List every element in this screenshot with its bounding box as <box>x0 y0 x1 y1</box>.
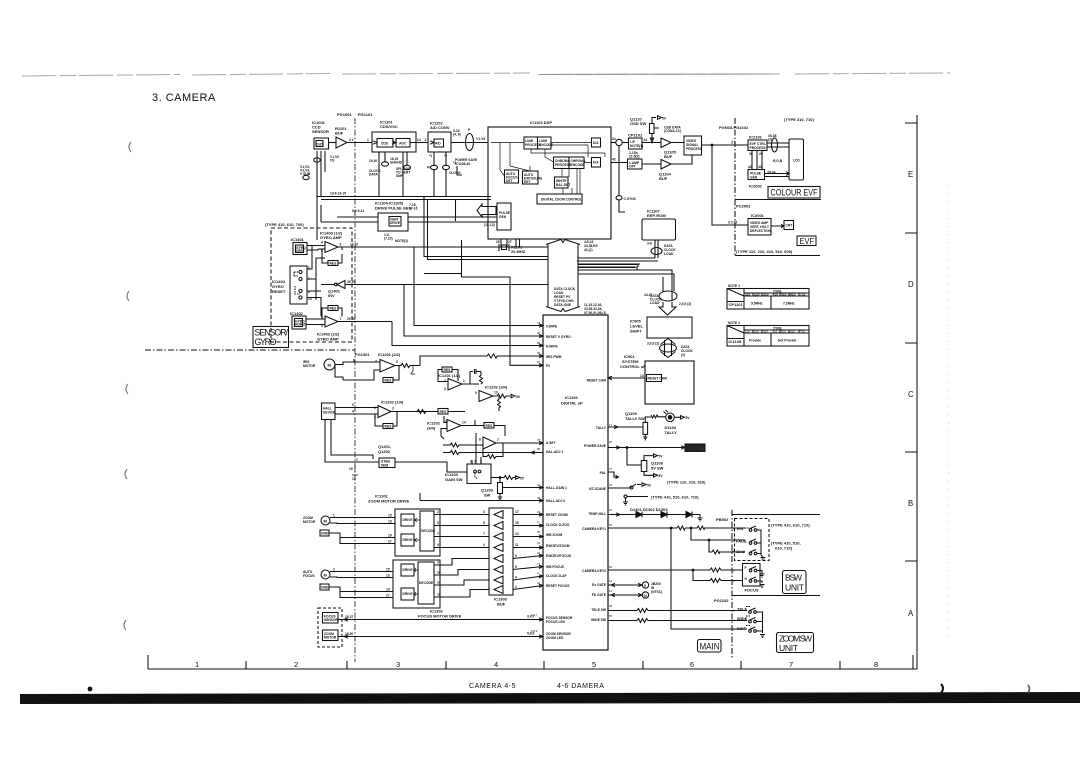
iris servo op-amp IC1201(2/2) <box>353 359 398 373</box>
svg-text:17-16: 17-16 <box>409 207 418 211</box>
svg-text:FOCUS: FOCUS <box>745 588 759 593</box>
svg-text:PROCESS: PROCESS <box>750 146 767 150</box>
IC1202(1/4) feedback RES <box>375 412 397 429</box>
svg-text:3-8: 3-8 <box>647 242 652 246</box>
svg-text:CP1101: CP1101 <box>729 302 744 307</box>
svg-text:NOTE(1): NOTE(1) <box>630 144 643 148</box>
svg-text:11-5(2): 11-5(2) <box>629 155 639 159</box>
svg-text:RESET V GYRO: RESET V GYRO <box>546 335 571 339</box>
svg-text:16: 16 <box>437 571 441 575</box>
svg-text:71: 71 <box>609 467 613 471</box>
svg-text:GAIN SW: GAIN SW <box>445 477 463 482</box>
buffer op-amp to A SET <box>479 437 543 449</box>
svg-text:9: 9 <box>352 403 354 407</box>
IC1301 zoom motor drive <box>368 494 440 557</box>
connector boundary PG1001/PG1101 dash-dot line <box>354 118 356 662</box>
IC1201(1/2) feedback RES <box>438 367 458 382</box>
LCD panel <box>789 139 804 180</box>
svg-text:Provide: Provide <box>749 339 761 343</box>
svg-text:4: 4 <box>437 543 439 547</box>
svg-text:(TYPE 410, 510, 610, 710): (TYPE 410, 510, 610, 710) <box>651 495 699 500</box>
svg-text:A: A <box>908 609 914 618</box>
svg-text:13: 13 <box>640 374 644 378</box>
svg-text:LCD: LCD <box>793 159 800 163</box>
buffer Q1105 <box>661 138 671 148</box>
svg-text:GYRO AMP: GYRO AMP <box>317 337 339 342</box>
svg-text:SHP,HD: SHP,HD <box>390 161 403 165</box>
svg-text:IC1105: IC1105 <box>729 339 742 344</box>
svg-text:PG1301: PG1301 <box>355 352 370 357</box>
wire video process to EVF line <box>702 144 749 146</box>
svg-text:5KM: 5KM <box>381 463 388 467</box>
svg-text:4: 4 <box>483 543 485 547</box>
svg-text:RES: RES <box>486 424 494 428</box>
camera key2 wire with resistors <box>608 568 743 583</box>
svg-text:42: 42 <box>612 158 616 162</box>
svg-text:FOCUS MOTOR DRIVE: FOCUS MOTOR DRIVE <box>418 614 462 619</box>
svg-text:C: C <box>908 390 914 399</box>
svg-text:5: 5 <box>644 584 646 588</box>
svg-text:(TYPE 110, 210, 310): (TYPE 110, 210, 310) <box>667 480 706 485</box>
svg-text:LOAD: LOAD <box>664 252 674 256</box>
svg-text:25,37: 25,37 <box>345 615 353 619</box>
wire gyro2 to H.WIPE <box>392 322 543 348</box>
svg-text:(TYPE 110, 210, 410, 510, 600): (TYPE 110, 210, 410, 510, 600) <box>736 249 793 254</box>
svg-text:CRT: CRT <box>786 224 793 228</box>
IC1103 DSP block <box>488 120 611 239</box>
wire inverter to bus <box>321 284 548 286</box>
svg-text:210: 210 <box>754 330 759 334</box>
svg-text:(TYPE 310, 710): (TYPE 310, 710) <box>784 117 814 122</box>
svg-text:4: 4 <box>494 660 498 669</box>
svg-text:IC1103 DSP: IC1103 DSP <box>530 120 552 125</box>
svg-text:MAIN: MAIN <box>700 642 720 652</box>
svg-text:UNIT: UNIT <box>785 583 805 593</box>
hall adj rail to IC1106 <box>420 493 543 502</box>
svg-text:RES: RES <box>385 425 393 429</box>
5V switch Q1108 <box>626 447 664 479</box>
svg-text:IC1202 (3/4): IC1202 (3/4) <box>485 385 508 390</box>
ZOOM SW UNIT label <box>777 633 814 654</box>
svg-text:8: 8 <box>874 660 878 669</box>
svg-text:WIDE SW: WIDE SW <box>591 618 607 622</box>
svg-text:9-6 9-11: 9-6 9-11 <box>352 209 364 213</box>
C.SYNC tap <box>616 146 637 212</box>
ruler ticks <box>148 655 913 669</box>
svg-text:AGC: AGC <box>399 141 407 145</box>
svg-text:NOTE(2): NOTE(2) <box>395 239 408 243</box>
wires ctrl down to pulse gen <box>752 151 762 170</box>
svg-text:2: 2 <box>333 568 335 572</box>
IC1106 left pin labels <box>546 325 573 641</box>
svg-text:DIGITAL uP: DIGITAL uP <box>561 401 583 406</box>
svg-text:BSW: BSW <box>785 573 803 583</box>
svg-text:MOTOR: MOTOR <box>324 636 337 640</box>
svg-text:63: 63 <box>609 523 613 527</box>
focus sensor wire to IC1106 <box>338 618 543 621</box>
lumi process / encode <box>524 137 554 149</box>
left margin scan marks <box>124 142 131 630</box>
page top scan line <box>22 73 950 76</box>
svg-text:TALLY: TALLY <box>665 430 678 435</box>
focus/zoom sensor dashed box <box>318 608 342 647</box>
svg-text:3: 3 <box>340 243 342 247</box>
svg-text:4: 4 <box>352 410 354 414</box>
svg-text:EW/ZEV/ZOOM: EW/ZEV/ZOOM <box>546 544 570 548</box>
svg-text:15: 15 <box>515 521 519 525</box>
gyro amp1 output wire <box>338 246 548 248</box>
wires zoom decode to buffers <box>434 510 489 548</box>
connector ellipse P <box>466 134 474 151</box>
EVF label <box>797 236 816 246</box>
svg-text:2: 2 <box>515 585 517 589</box>
svg-text:56: 56 <box>537 530 541 534</box>
svg-text:GEN: GEN <box>750 175 758 179</box>
svg-text:R,G,B: R,G,B <box>773 159 783 163</box>
IC901 system control microprocessor <box>620 293 694 404</box>
bus spur right to IC905 <box>578 265 674 292</box>
svg-text:GND: GND <box>321 586 329 590</box>
wire DSP chroma to amp <box>611 162 628 164</box>
INST switch <box>733 626 756 633</box>
svg-text:F: F <box>745 566 747 570</box>
svg-text:HAL-ADJ 1: HAL-ADJ 1 <box>546 450 563 454</box>
svg-text:BAL.DET: BAL.DET <box>556 183 570 187</box>
right frame border <box>913 115 917 669</box>
BSW switches ground <box>757 530 766 561</box>
svg-text:A SET: A SET <box>546 441 556 445</box>
BSW section bottom border <box>732 595 820 597</box>
Ex gate / FD gate jacks <box>608 582 662 598</box>
digital zoom control <box>537 194 582 204</box>
gyro amp2 output wire <box>338 321 392 323</box>
svg-text:87: 87 <box>537 360 541 364</box>
svg-text:4: 4 <box>321 241 323 245</box>
IC905 level shift <box>630 317 692 346</box>
horizontal timing bus <box>317 197 491 200</box>
svg-text:DATA-ONE: DATA-ONE <box>554 303 572 307</box>
IC1401 gyro sensor <box>291 237 307 255</box>
svg-text:GYRO AMP: GYRO AMP <box>320 235 342 240</box>
svg-text:IC1106-40: IC1106-40 <box>455 162 470 166</box>
svg-text:BUF: BUF <box>335 131 344 136</box>
NOTE 1 table CP1101 <box>727 284 809 309</box>
svg-text:PGN03-PG2102: PGN03-PG2102 <box>719 125 749 130</box>
wire iris servo to IRIS PWM with resistor <box>420 354 543 365</box>
svg-text:POWER SAVE: POWER SAVE <box>584 444 607 448</box>
svg-text:LOAD: LOAD <box>650 301 660 305</box>
svg-text:PB902: PB902 <box>716 517 729 522</box>
stabilizer Q1201 Q1202 <box>378 444 395 468</box>
focus motor <box>303 570 330 590</box>
svg-text:GND: GND <box>321 532 329 536</box>
branch down to EVF CRT unit <box>711 144 713 146</box>
IC1404 gyro reset <box>272 266 312 305</box>
svg-text:CLOCK D-ZOO: CLOCK D-ZOO <box>546 523 570 527</box>
svg-text:RES: RES <box>444 368 452 372</box>
svg-text:13: 13 <box>388 520 392 524</box>
svg-text:Ex GATE: Ex GATE <box>592 583 607 587</box>
svg-text:12: 12 <box>352 477 356 481</box>
IC1203 gain switch <box>445 457 525 484</box>
svg-text:(NTSC): (NTSC) <box>651 590 662 594</box>
svg-text:6: 6 <box>690 660 694 669</box>
svg-text:INV: INV <box>328 293 335 298</box>
svg-text:TELE: TELE <box>737 607 748 612</box>
svg-text:DRIVE: DRIVE <box>403 518 414 522</box>
serial bus to main bus double wire <box>424 197 548 260</box>
svg-text:710: 710 <box>800 330 805 334</box>
svg-text:9: 9 <box>475 391 477 395</box>
svg-text:ZOOM SW: ZOOM SW <box>779 634 813 644</box>
wire IC1202(1/4) out to RES and IC1202(4/4) <box>391 409 465 415</box>
IC1303 buffer bank <box>489 508 513 607</box>
svg-text:31: 31 <box>537 541 541 545</box>
svg-text:WB FOCUS: WB FOCUS <box>546 565 565 569</box>
svg-text:55: 55 <box>609 614 613 618</box>
chroma amp block <box>628 159 643 169</box>
svg-text:11: 11 <box>515 543 519 547</box>
svg-text:610: 610 <box>790 293 796 297</box>
COLOUR EVF label <box>768 187 820 199</box>
svg-text:IC1201 (1/2): IC1201 (1/2) <box>438 373 461 378</box>
svg-text:IC2101: IC2101 <box>749 135 763 140</box>
svg-text:3,6,5 (2): 3,6,5 (2) <box>647 342 659 346</box>
svg-text:SENSOR/: SENSOR/ <box>255 328 289 338</box>
svg-text:MOTOR: MOTOR <box>303 520 316 524</box>
svg-text:1: 1 <box>474 460 476 464</box>
svg-text:DET: DET <box>506 179 513 183</box>
svg-text:10: 10 <box>644 594 648 598</box>
svg-text:510: 510 <box>781 330 786 334</box>
pin stubs on dash-dot at servo rows <box>352 466 358 475</box>
bus oval IC905 to IC901 <box>660 339 694 358</box>
svg-text:IC2002: IC2002 <box>749 184 763 189</box>
svg-text:5: 5 <box>437 521 439 525</box>
wires gyro reset pins <box>307 246 325 317</box>
svg-text:HALL-ADJ 0: HALL-ADJ 0 <box>546 499 565 503</box>
svg-text:UNIT: UNIT <box>779 643 799 653</box>
NOTE 2 table IC1105 <box>727 321 809 346</box>
svg-text:61: 61 <box>609 508 613 512</box>
bottom zone ruler line <box>148 668 913 670</box>
svg-text:4-6 DAMERA: 4-6 DAMERA <box>557 683 605 690</box>
svg-text:PG1102: PG1102 <box>714 598 729 603</box>
serial bus EEPROM to uP bus <box>577 258 658 261</box>
EVF pulse gen IC2002 <box>748 165 776 189</box>
zone numbers <box>195 660 878 669</box>
node circle after DSP <box>611 142 616 144</box>
wire buffer to CDS/VSC with pin numbers <box>347 142 372 144</box>
resistor rows under buffer <box>443 433 543 464</box>
connector boundary PB902/PG1102 dash-dot <box>731 510 733 658</box>
svg-text:DRIVE: DRIVE <box>390 221 401 225</box>
svg-text:EW/ZEV/FOCUS: EW/ZEV/FOCUS <box>546 554 572 558</box>
wire RESET CAM IC901 to IC1106 <box>608 376 645 379</box>
iris feedback resistor <box>383 366 399 383</box>
wires focus motor to drive <box>329 568 393 598</box>
svg-text:(4/4): (4/4) <box>427 426 436 431</box>
svg-text:CONTROL uP: CONTROL uP <box>620 364 646 369</box>
svg-text:3: 3 <box>437 561 439 565</box>
svg-text:19: 19 <box>388 534 392 538</box>
buffer amp triangle R1101 <box>336 137 347 148</box>
svg-text:15: 15 <box>388 514 392 518</box>
svg-text:BUF: BUF <box>664 154 673 159</box>
TELE switch <box>733 607 756 614</box>
svg-text:16x9: 16x9 <box>736 549 746 554</box>
IC1202 (1/4) op-amp <box>374 400 404 420</box>
svg-text:13: 13 <box>609 589 613 593</box>
svg-text:23: 23 <box>609 483 613 487</box>
svg-text:44: 44 <box>758 165 762 169</box>
auto focus det <box>505 170 519 183</box>
svg-text:6: 6 <box>515 565 517 569</box>
svg-text:17: 17 <box>388 540 392 544</box>
svg-text:WB ZOOM: WB ZOOM <box>546 533 563 537</box>
svg-text:B: B <box>908 499 913 508</box>
tele/wide sw wires <box>608 609 747 623</box>
bus step down to IC905 <box>578 261 672 290</box>
svg-text:IC1202 (1/4): IC1202 (1/4) <box>381 400 404 405</box>
svg-text:DEVICE: DEVICE <box>323 411 336 415</box>
svg-text:14: 14 <box>417 138 421 142</box>
svg-text:42: 42 <box>748 165 752 169</box>
fat arrow into pulse gen <box>477 204 496 217</box>
svg-text:PG1001: PG1001 <box>337 112 352 117</box>
wires drive pulse gen to pulse gen <box>321 217 497 222</box>
CDS clock/data pins below <box>369 152 411 197</box>
IC1202 (4/4) op-amp <box>427 420 466 432</box>
svg-text:TALLY: TALLY <box>596 426 607 430</box>
right margin dotted scan noise <box>948 185 950 640</box>
timing spur down to drive pulse wire <box>455 200 457 222</box>
RES after 4/4 <box>481 423 505 437</box>
svg-text:MOTOR: MOTOR <box>303 364 316 368</box>
coupling capacitor and resistor right of IC1201(1/2) <box>462 369 483 384</box>
svg-text:D: D <box>908 280 914 289</box>
svg-text:COLOUR EVF: COLOUR EVF <box>771 188 819 198</box>
crystal X1101 <box>496 239 526 254</box>
IC1201 (1/2) op-amp <box>438 373 465 391</box>
horizontal section dash-dot divider left <box>145 349 355 351</box>
svg-text:CAMERA KEY2: CAMERA KEY2 <box>582 569 606 573</box>
svg-text:NOTE 2: NOTE 2 <box>728 321 740 325</box>
svg-text:RES: RES <box>330 307 338 311</box>
svg-text:2: 2 <box>425 138 427 142</box>
svg-text:D/A: D/A <box>593 141 599 145</box>
svg-text:38: 38 <box>537 331 541 335</box>
svg-text:CAMERA KEY1: CAMERA KEY1 <box>582 527 606 531</box>
svg-text:(2): (2) <box>681 353 685 357</box>
svg-text:DIGITAL ZOOM CONTROL: DIGITAL ZOOM CONTROL <box>541 198 582 202</box>
svg-text:19: 19 <box>386 588 390 592</box>
output resistor to 5V <box>493 394 515 398</box>
svg-text:17: 17 <box>609 423 613 427</box>
D/A bottom <box>592 158 601 168</box>
svg-text:NT-SCANE: NT-SCANE <box>589 487 607 491</box>
svg-text:3: 3 <box>396 660 400 669</box>
svg-text:5: 5 <box>592 660 596 669</box>
power save net <box>608 444 705 452</box>
svg-text:D/A: D/A <box>593 161 599 165</box>
svg-text:INST: INST <box>737 626 747 631</box>
svg-text:CDS/VSC: CDS/VSC <box>380 124 398 129</box>
A/D clock pins below <box>427 152 461 197</box>
svg-text:15: 15 <box>386 568 390 572</box>
svg-text:DET: DET <box>524 180 531 184</box>
svg-text:7: 7 <box>437 532 439 536</box>
EVF section divider <box>735 199 821 201</box>
row boundary ticks <box>905 123 917 561</box>
CCD bias pins left <box>300 151 339 200</box>
svg-text:9: 9 <box>515 554 517 558</box>
svg-text:4: 4 <box>515 576 517 580</box>
svg-text:14: 14 <box>437 581 441 585</box>
svg-text:SMP: SMP <box>396 174 404 178</box>
svg-text:VERT.: VERT. <box>296 249 305 253</box>
wire stab to gain sw net <box>395 462 467 472</box>
wire 4/4 input from cap line <box>441 416 447 439</box>
svg-text:310: 310 <box>763 293 769 297</box>
svg-text:Not Provide: Not Provide <box>778 339 797 343</box>
svg-text:(TYPE 410, 610, 710): (TYPE 410, 610, 710) <box>771 523 810 528</box>
svg-text:EEP-ROM: EEP-ROM <box>647 213 666 218</box>
NTSC/PAL type selector <box>608 480 706 506</box>
wires buffers to IC1106 <box>513 510 543 590</box>
svg-text:H.WIPE: H.WIPE <box>546 345 559 349</box>
IC1102 A/D converter <box>428 121 451 153</box>
feedback resistor of gyro amp1 <box>322 247 342 266</box>
svg-text:CLOCK D-AF: CLOCK D-AF <box>546 574 567 578</box>
IC1106 right pin numbers <box>609 375 613 618</box>
wires iris motor to op-amp <box>335 362 380 380</box>
svg-text:14: 14 <box>462 421 466 425</box>
svg-text:RESET: RESET <box>272 289 286 294</box>
svg-text:FD GATE: FD GATE <box>592 593 607 597</box>
svg-text:SENSOR: SENSOR <box>312 129 329 134</box>
svg-text:610, 710]: 610, 710] <box>775 546 793 551</box>
bus from uP to IC905 oval arrow <box>650 277 691 315</box>
svg-text:710: 710 <box>800 293 806 297</box>
svg-text:29 29: 29 29 <box>347 280 355 284</box>
wires focus decode to buffers stepped <box>434 559 489 598</box>
svg-text:1: 1 <box>333 514 335 518</box>
svg-text:18: 18 <box>437 593 441 597</box>
svg-text:11: 11 <box>732 549 735 553</box>
FOCUS switch box <box>733 564 765 593</box>
svg-text:IC1401: IC1401 <box>291 237 305 242</box>
svg-text:3: 3 <box>483 510 485 514</box>
EEPROM serial pins <box>647 240 676 258</box>
pulse gen block <box>497 203 511 230</box>
svg-text:A/D CONV: A/D CONV <box>430 125 450 130</box>
buffer Q1104 <box>642 160 671 170</box>
chroma process / encode <box>554 157 586 169</box>
BSW section top border <box>732 514 820 516</box>
svg-text:13: 13 <box>386 574 390 578</box>
svg-text:PROCESS: PROCESS <box>686 147 703 151</box>
svg-text:13: 13 <box>515 532 519 536</box>
svg-text:CAMERA 4-5: CAMERA 4-5 <box>469 683 516 690</box>
svg-text:DECODE: DECODE <box>419 581 434 585</box>
svg-text:BUF: BUF <box>659 176 668 181</box>
D/A top <box>592 138 601 147</box>
svg-text:19,20: 19,20 <box>369 159 377 163</box>
16x9 switch <box>732 549 757 555</box>
PAL stub <box>608 472 619 479</box>
svg-text:OUT: OUT <box>316 143 323 147</box>
